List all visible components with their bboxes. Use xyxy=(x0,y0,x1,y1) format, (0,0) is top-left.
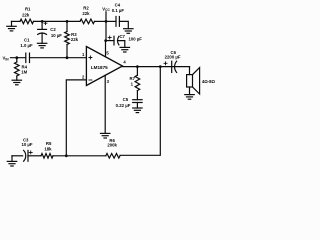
label R7 xyxy=(130,76,136,87)
node junction R3 to input xyxy=(66,56,69,59)
svg-text:22k: 22k xyxy=(22,13,30,18)
wire C1 to pin 1 xyxy=(30,57,87,59)
svg-text:4Ω-8Ω: 4Ω-8Ω xyxy=(202,79,216,84)
resistor R6 (200k) xyxy=(106,154,120,159)
wire pin 2 feedback to bottom rail xyxy=(66,80,86,156)
label R1 xyxy=(22,6,31,17)
label R3 xyxy=(71,32,79,42)
capacitor C7 (100uF electrolytic) xyxy=(106,36,125,47)
ground under C2 xyxy=(37,43,46,48)
svg-text:200k: 200k xyxy=(107,143,117,148)
label pin 5 xyxy=(106,50,109,55)
op-amp minus input marking xyxy=(89,79,92,81)
svg-text:C2: C2 xyxy=(50,27,56,32)
svg-text:2200 µF: 2200 µF xyxy=(165,55,181,60)
resistor R3 xyxy=(65,32,70,45)
node junction C2 tap xyxy=(41,20,44,23)
capacitor C6 (2200uF electrolytic output) xyxy=(164,61,177,72)
ground under pin 3 xyxy=(101,133,110,138)
label R5 xyxy=(44,141,52,151)
resistor R1 xyxy=(20,19,34,24)
wire C4 to ground xyxy=(119,21,128,28)
label pin 1 xyxy=(82,52,85,57)
op-amp U1 LM1875 xyxy=(86,47,122,86)
svg-text:1.0 µF: 1.0 µF xyxy=(20,43,33,48)
resistor R2 xyxy=(80,19,95,24)
label pin 2 xyxy=(82,75,85,80)
speaker LS1 xyxy=(187,68,200,94)
svg-text:R2: R2 xyxy=(83,5,89,10)
svg-text:R1: R1 xyxy=(25,6,31,11)
wire Vin input xyxy=(11,57,26,59)
wire R1 to R2 xyxy=(34,20,81,22)
label C6 xyxy=(165,50,181,59)
svg-text:VIN: VIN xyxy=(3,56,10,62)
node junction pin 2 tap xyxy=(65,154,68,157)
svg-text:18k: 18k xyxy=(44,147,52,152)
wire output pin 4 xyxy=(123,66,190,68)
capacitor C1 (1.0uF input coupling) xyxy=(26,53,30,62)
ground under speaker xyxy=(185,95,194,100)
ground left of R1 xyxy=(7,21,16,31)
svg-text:R7: R7 xyxy=(130,76,136,81)
node junction R7 tap xyxy=(136,65,139,68)
svg-text:C4: C4 xyxy=(115,2,121,7)
wire Vcc stub xyxy=(105,12,107,22)
node junction C7 tap xyxy=(104,39,107,42)
capacitor C5 (0.22uF Zobel) xyxy=(133,100,142,108)
wire R2 to Vcc node xyxy=(95,20,107,22)
ground under C7 xyxy=(120,47,129,52)
node junction Vcc xyxy=(105,20,108,23)
svg-text:0.22 µF: 0.22 µF xyxy=(116,103,131,108)
wire R3 bottom stub xyxy=(66,45,68,58)
wire bottom rail left xyxy=(12,155,23,157)
resistor R4 xyxy=(15,58,20,80)
capacitor C3 (10uF feedback, electrolytic) xyxy=(24,150,41,161)
svg-text:VCC: VCC xyxy=(102,7,110,13)
label C3 xyxy=(21,138,32,147)
label R4 xyxy=(21,64,27,74)
svg-text:R4: R4 xyxy=(22,64,28,69)
svg-text:C7: C7 xyxy=(119,34,125,39)
wire C6 to speaker xyxy=(189,67,191,75)
svg-text:100 µF: 100 µF xyxy=(128,36,142,41)
label R6 xyxy=(107,138,117,148)
wire feedback down xyxy=(120,67,160,156)
label speaker impedance xyxy=(202,79,216,84)
label pin 4 xyxy=(123,60,126,65)
label pin 3 xyxy=(107,79,110,84)
node junction R3 top xyxy=(66,20,69,23)
label R2 xyxy=(82,5,90,16)
label Vcc xyxy=(102,7,110,13)
resistor R5 (18k) xyxy=(41,154,53,159)
svg-text:22k: 22k xyxy=(82,11,90,16)
op-amp plus input marking xyxy=(89,56,92,59)
svg-text:C5: C5 xyxy=(123,97,129,102)
wire R5 to R6 xyxy=(53,155,106,157)
node junction feedback tap xyxy=(159,65,162,68)
label C7 xyxy=(119,34,142,41)
svg-text:0.1 µF: 0.1 µF xyxy=(112,8,125,13)
node junction R4 tap xyxy=(15,56,18,59)
label C4 xyxy=(112,2,125,13)
ground under C5 xyxy=(133,108,142,113)
wire speaker to ground xyxy=(189,87,191,95)
svg-text:1M: 1M xyxy=(21,70,27,75)
svg-text:LM1875: LM1875 xyxy=(91,65,108,70)
svg-text:R5: R5 xyxy=(46,141,52,146)
svg-text:10 µF: 10 µF xyxy=(51,33,62,38)
wire pin 3 to ground xyxy=(104,75,106,133)
capacitor C2 (10uF electrolytic to ground) xyxy=(38,21,47,43)
resistor R7 (1 ohm Zobel) xyxy=(135,67,140,100)
label C2 xyxy=(50,27,62,38)
capacitor C4 (0.1uF) xyxy=(116,17,119,27)
label C1 xyxy=(20,38,33,48)
wire R3 top stub xyxy=(66,21,68,31)
ground under R4 xyxy=(12,80,21,85)
svg-text:10 µF: 10 µF xyxy=(21,142,32,147)
label U1 LM1875 xyxy=(91,65,108,70)
label C5 xyxy=(116,97,131,108)
ground under C4 xyxy=(124,29,133,34)
wire V+ supply line down to pin 5 xyxy=(105,21,108,56)
ground bottom left xyxy=(7,156,16,166)
svg-text:22k: 22k xyxy=(71,37,79,42)
label Vin xyxy=(3,56,10,62)
wire Vcc node to C4 xyxy=(106,20,116,22)
wire top rail left segment xyxy=(12,20,21,22)
